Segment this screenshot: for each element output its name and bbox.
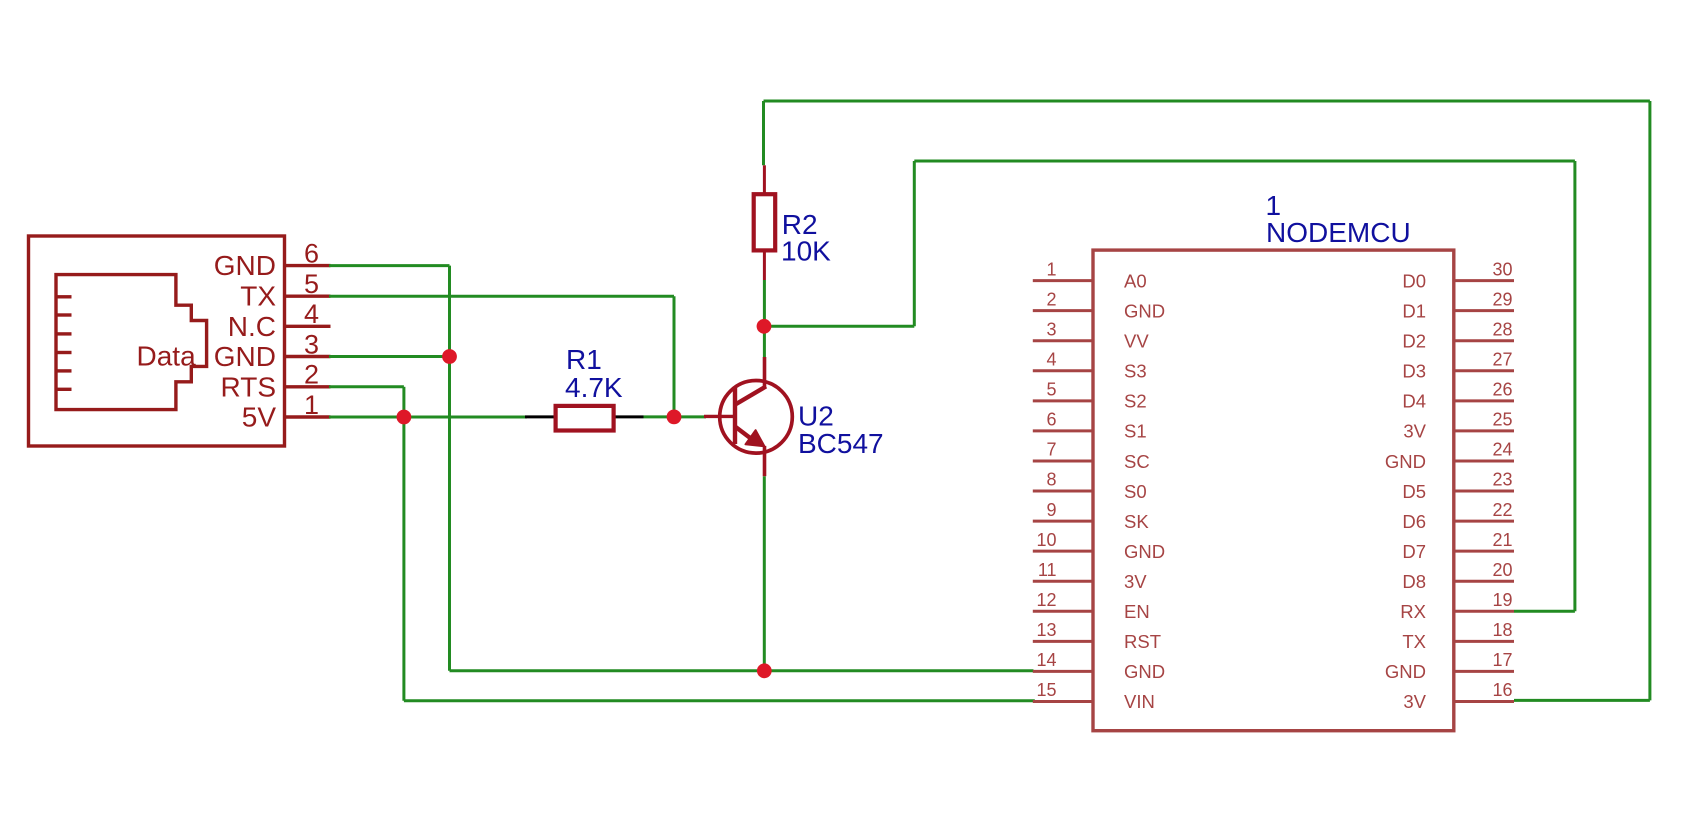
svg-text:S0: S0 xyxy=(1124,481,1147,502)
svg-text:S2: S2 xyxy=(1124,391,1147,412)
NODEMCU pin 30 lead xyxy=(1454,279,1514,282)
svg-text:4: 4 xyxy=(304,299,319,329)
pin label N.C (pin 4) xyxy=(228,311,276,342)
svg-text:D8: D8 xyxy=(1402,571,1426,592)
pin name S2 (pin 5) xyxy=(1124,391,1147,412)
svg-text:GND: GND xyxy=(1124,300,1165,321)
svg-text:D6: D6 xyxy=(1402,511,1426,532)
connector pin 2 lead xyxy=(285,385,331,388)
connector pin 3 lead xyxy=(285,355,331,358)
svg-text:VV: VV xyxy=(1124,331,1149,352)
svg-text:D1: D1 xyxy=(1402,300,1426,321)
svg-text:3V: 3V xyxy=(1403,691,1426,712)
pin number 12 xyxy=(1036,590,1056,610)
NODEMCU pin 11 lead xyxy=(1033,580,1093,583)
pin name D1 (pin 29) xyxy=(1402,300,1426,321)
pin number 14 xyxy=(1036,650,1056,670)
NODEMCU pin 25 lead xyxy=(1454,429,1514,432)
connector pin 4 lead xyxy=(285,325,331,328)
pin name D6 (pin 22) xyxy=(1402,511,1426,532)
svg-text:5: 5 xyxy=(1046,380,1056,400)
junction R1/TX/base xyxy=(667,410,682,425)
pin number 30 xyxy=(1492,259,1512,279)
pin number 24 xyxy=(1492,440,1512,460)
svg-text:GND: GND xyxy=(214,341,276,372)
svg-text:U2: U2 xyxy=(798,401,834,432)
svg-text:6: 6 xyxy=(1046,410,1056,430)
wire base node to Q1 base xyxy=(674,415,706,418)
svg-text:3V: 3V xyxy=(1124,571,1147,592)
pin label GND (pin 3) xyxy=(214,341,276,372)
pin name RST (pin 13) xyxy=(1124,631,1161,652)
transistor U2 emitter diagonal xyxy=(736,427,753,440)
svg-text:VIN: VIN xyxy=(1124,691,1155,712)
svg-text:24: 24 xyxy=(1492,440,1512,460)
pin number 20 xyxy=(1492,560,1512,580)
NODEMCU pin 2 lead xyxy=(1033,309,1093,312)
NODEMCU pin 5 lead xyxy=(1033,399,1093,402)
pin label TX (pin 5) xyxy=(240,281,276,312)
NODEMCU pin 8 lead xyxy=(1033,490,1093,493)
pin number 4 xyxy=(1046,349,1056,369)
svg-text:10: 10 xyxy=(1036,530,1056,550)
NODEMCU pin 7 lead xyxy=(1033,459,1093,462)
wire emitter to GND run xyxy=(763,476,766,671)
pin number 27 xyxy=(1492,349,1512,369)
svg-text:27: 27 xyxy=(1492,349,1512,369)
NODEMCU pin 6 lead xyxy=(1033,429,1093,432)
svg-text:20: 20 xyxy=(1492,560,1512,580)
resistor R2 top stub xyxy=(763,165,766,194)
pin name D4 (pin 26) xyxy=(1402,391,1426,412)
svg-text:2: 2 xyxy=(304,360,319,390)
NODEMCU pin 28 lead xyxy=(1454,339,1514,342)
svg-text:1: 1 xyxy=(304,390,319,420)
wire upper run to right xyxy=(914,160,1575,163)
IC U1 NODEMCU outline xyxy=(1093,250,1454,731)
NODEMCU pin 15 lead xyxy=(1033,700,1093,703)
NODEMCU pin 18 lead xyxy=(1454,640,1514,643)
junction RTS/5V/VIN xyxy=(397,410,412,425)
svg-text:NODEMCU: NODEMCU xyxy=(1266,217,1411,248)
svg-text:GND: GND xyxy=(214,250,276,281)
NODEMCU pin 29 lead xyxy=(1454,309,1514,312)
svg-text:1: 1 xyxy=(1046,259,1056,279)
transistor U2 emitter lead xyxy=(763,446,767,476)
pin name D5 (pin 23) xyxy=(1402,481,1426,502)
NODEMCU pin 24 lead xyxy=(1454,459,1514,462)
wire TX pin5 horizontal xyxy=(329,295,674,298)
pin name A0 (pin 1) xyxy=(1124,270,1147,291)
NODEMCU pin 26 lead xyxy=(1454,399,1514,402)
junction emitter/GND xyxy=(757,663,772,678)
svg-text:D5: D5 xyxy=(1402,481,1426,502)
pin number 10 xyxy=(1036,530,1056,550)
pin number 25 xyxy=(1492,410,1512,430)
resistor R2 bottom stub xyxy=(763,251,766,281)
NODEMCU pin 3 lead xyxy=(1033,339,1093,342)
pin name S3 (pin 4) xyxy=(1124,361,1147,382)
part name NODEMCU xyxy=(1266,217,1411,248)
pin number 2 xyxy=(1046,289,1056,309)
svg-text:TX: TX xyxy=(240,281,276,312)
pin name RX (pin 19) xyxy=(1400,601,1426,622)
NODEMCU pin 4 lead xyxy=(1033,369,1093,372)
wire R2 bottom to collector node xyxy=(763,280,766,326)
pin name GND (pin 24) xyxy=(1385,451,1426,472)
pin number 1 xyxy=(304,390,319,420)
svg-text:10K: 10K xyxy=(781,236,831,267)
pin number 5 xyxy=(304,269,319,299)
svg-text:5V: 5V xyxy=(242,402,277,433)
pin number 11 xyxy=(1038,560,1057,580)
svg-text:GND: GND xyxy=(1124,661,1165,682)
wire 5V node down xyxy=(402,417,405,701)
svg-text:N.C: N.C xyxy=(228,311,276,342)
pin number 4 xyxy=(304,299,319,329)
pin label RTS (pin 2) xyxy=(221,371,277,402)
svg-text:16: 16 xyxy=(1492,680,1512,700)
wire collector node right xyxy=(764,325,914,328)
NODEMCU pin 19 lead xyxy=(1454,610,1514,613)
transistor U2 collector diagonal xyxy=(736,386,767,404)
svg-text:19: 19 xyxy=(1492,590,1512,610)
pin name S0 (pin 8) xyxy=(1124,481,1147,502)
svg-text:13: 13 xyxy=(1036,620,1056,640)
wire collector node down xyxy=(763,326,766,357)
NODEMCU pin 23 lead xyxy=(1454,490,1514,493)
connector J1 'Data' outline xyxy=(29,236,285,446)
pin name D0 (pin 30) xyxy=(1402,270,1426,291)
wire into RX pin19 xyxy=(1514,610,1575,613)
svg-text:D4: D4 xyxy=(1402,391,1426,412)
wire GND to pin14 xyxy=(450,669,1034,672)
transistor U2 base bar xyxy=(733,388,737,444)
svg-text:4: 4 xyxy=(1046,349,1056,369)
svg-text:RTS: RTS xyxy=(221,371,277,402)
svg-text:4.7K: 4.7K xyxy=(565,372,623,403)
wire top run xyxy=(764,100,1650,103)
pin number 18 xyxy=(1492,620,1512,640)
svg-text:26: 26 xyxy=(1492,380,1512,400)
wire R2 top vertical xyxy=(762,101,765,165)
svg-text:21: 21 xyxy=(1492,530,1512,550)
pin label GND (pin 6) xyxy=(214,250,276,281)
pin number 23 xyxy=(1492,470,1512,490)
pin label 5V (pin 1) xyxy=(242,402,277,433)
pin number 28 xyxy=(1492,319,1512,339)
pin name D8 (pin 20) xyxy=(1402,571,1426,592)
label U2 xyxy=(798,401,834,432)
pin number 17 xyxy=(1492,650,1512,670)
svg-text:25: 25 xyxy=(1492,410,1512,430)
pin name GND (pin 10) xyxy=(1124,541,1165,562)
svg-text:S1: S1 xyxy=(1124,421,1147,442)
svg-text:3V: 3V xyxy=(1403,421,1426,442)
designator 1 xyxy=(1266,190,1282,221)
svg-text:D3: D3 xyxy=(1402,361,1426,382)
junction GND pin3 xyxy=(442,349,457,364)
svg-text:D2: D2 xyxy=(1402,331,1426,352)
svg-text:5: 5 xyxy=(304,269,319,299)
svg-text:30: 30 xyxy=(1492,259,1512,279)
svg-text:28: 28 xyxy=(1492,319,1512,339)
resistor R1 left stub xyxy=(525,415,555,418)
svg-text:S3: S3 xyxy=(1124,361,1147,382)
resistor R1 right stub xyxy=(614,415,644,418)
pin number 26 xyxy=(1492,380,1512,400)
value 10K xyxy=(781,236,831,267)
wire RTS down to 5V node xyxy=(402,387,405,417)
pin number 21 xyxy=(1492,530,1512,550)
pin number 6 xyxy=(1046,410,1056,430)
svg-text:8: 8 xyxy=(1046,470,1056,490)
pin name D2 (pin 28) xyxy=(1402,331,1426,352)
svg-text:TX: TX xyxy=(1402,631,1426,652)
connector J1 contact teeth xyxy=(56,297,72,390)
wire to VIN pin15 xyxy=(404,699,1035,702)
wire 5V pin1 to R1 xyxy=(329,416,527,419)
svg-text:15: 15 xyxy=(1036,680,1056,700)
pin number 15 xyxy=(1036,680,1056,700)
wire up to upper run xyxy=(913,161,916,326)
NODEMCU pin 1 lead xyxy=(1033,279,1093,282)
pin name GND (pin 17) xyxy=(1385,661,1426,682)
svg-text:GND: GND xyxy=(1124,541,1165,562)
pin number 1 xyxy=(1046,259,1056,279)
pin number 8 xyxy=(1046,470,1056,490)
svg-text:SC: SC xyxy=(1124,451,1150,472)
pin name SK (pin 9) xyxy=(1124,511,1149,532)
wire down far right xyxy=(1648,101,1651,700)
svg-text:7: 7 xyxy=(1046,440,1056,460)
pin number 3 xyxy=(304,329,319,359)
svg-text:Data: Data xyxy=(137,340,197,371)
pin number 2 xyxy=(304,360,319,390)
wire into 3V pin16 xyxy=(1514,699,1650,702)
NODEMCU pin 21 lead xyxy=(1454,550,1514,553)
pin number 6 xyxy=(304,238,319,268)
pin name GND (pin 14) xyxy=(1124,661,1165,682)
svg-text:R1: R1 xyxy=(566,344,602,375)
transistor U2 circle xyxy=(720,381,793,454)
pin name TX (pin 18) xyxy=(1402,631,1426,652)
NODEMCU pin 27 lead xyxy=(1454,369,1514,372)
pin name GND (pin 2) xyxy=(1124,300,1165,321)
svg-text:D0: D0 xyxy=(1402,270,1426,291)
wire RTS pin2 horizontal xyxy=(329,385,404,388)
svg-text:22: 22 xyxy=(1492,500,1512,520)
label R2 xyxy=(782,209,818,240)
svg-text:29: 29 xyxy=(1492,289,1512,309)
pin number 29 xyxy=(1492,289,1512,309)
wire GND vertical xyxy=(448,266,451,671)
svg-text:3: 3 xyxy=(1046,319,1056,339)
pin name VV (pin 3) xyxy=(1124,331,1149,352)
NODEMCU pin 22 lead xyxy=(1454,520,1514,523)
pin number 3 xyxy=(1046,319,1056,339)
NODEMCU pin 17 lead xyxy=(1454,670,1514,673)
svg-text:SK: SK xyxy=(1124,511,1149,532)
resistor R2 body xyxy=(754,194,776,250)
pin number 5 xyxy=(1046,380,1056,400)
pin number 19 xyxy=(1492,590,1512,610)
svg-text:12: 12 xyxy=(1036,590,1056,610)
transistor U2 collector lead xyxy=(763,357,767,388)
NODEMCU pin 20 lead xyxy=(1454,580,1514,583)
label Data xyxy=(137,340,197,371)
NODEMCU pin 14 lead xyxy=(1033,670,1093,673)
pin name D3 (pin 27) xyxy=(1402,361,1426,382)
svg-text:RST: RST xyxy=(1124,631,1161,652)
label R1 xyxy=(566,344,602,375)
svg-text:11: 11 xyxy=(1038,560,1057,580)
svg-text:BC547: BC547 xyxy=(798,428,884,459)
connector pin 1 lead xyxy=(285,415,331,418)
pin name S1 (pin 6) xyxy=(1124,421,1147,442)
svg-text:D7: D7 xyxy=(1402,541,1426,562)
pin number 22 xyxy=(1492,500,1512,520)
svg-text:GND: GND xyxy=(1385,451,1426,472)
wire GND pin6 horizontal xyxy=(329,264,450,267)
transistor U2 emitter arrow xyxy=(746,430,765,446)
pin number 16 xyxy=(1492,680,1512,700)
svg-text:6: 6 xyxy=(304,238,319,268)
svg-text:14: 14 xyxy=(1036,650,1056,670)
svg-text:2: 2 xyxy=(1046,289,1056,309)
pin name 3V (pin 11) xyxy=(1124,571,1147,592)
svg-text:3: 3 xyxy=(304,329,319,359)
NODEMCU pin 10 lead xyxy=(1033,550,1093,553)
svg-text:GND: GND xyxy=(1385,661,1426,682)
pin name 3V (pin 16) xyxy=(1403,691,1426,712)
connector pin 5 lead xyxy=(285,295,331,298)
pin name VIN (pin 15) xyxy=(1124,691,1155,712)
value 4.7K xyxy=(565,372,623,403)
NODEMCU pin 16 lead xyxy=(1454,700,1514,703)
NODEMCU pin 12 lead xyxy=(1033,610,1093,613)
resistor R1 body xyxy=(556,406,614,431)
transistor U2 base lead xyxy=(704,415,733,418)
svg-text:23: 23 xyxy=(1492,470,1512,490)
pin number 7 xyxy=(1046,440,1056,460)
pin number 13 xyxy=(1036,620,1056,640)
wire R1 to base node xyxy=(644,415,675,418)
NODEMCU pin 13 lead xyxy=(1033,640,1093,643)
junction R2/collector xyxy=(757,319,772,334)
value BC547 xyxy=(798,428,884,459)
pin number 9 xyxy=(1046,500,1056,520)
wire GND pin3 horizontal xyxy=(329,355,450,358)
svg-text:A0: A0 xyxy=(1124,270,1147,291)
wire down right side to RX xyxy=(1573,161,1576,611)
svg-text:9: 9 xyxy=(1046,500,1056,520)
pin name 3V (pin 25) xyxy=(1403,421,1426,442)
svg-text:17: 17 xyxy=(1492,650,1512,670)
svg-text:EN: EN xyxy=(1124,601,1150,622)
wire TX down to base node xyxy=(673,296,676,417)
pin name D7 (pin 21) xyxy=(1402,541,1426,562)
connector J1 jack body xyxy=(56,275,207,410)
svg-text:18: 18 xyxy=(1492,620,1512,640)
connector pin 6 lead xyxy=(285,264,331,267)
pin name SC (pin 7) xyxy=(1124,451,1150,472)
svg-text:RX: RX xyxy=(1400,601,1426,622)
NODEMCU pin 9 lead xyxy=(1033,520,1093,523)
pin name EN (pin 12) xyxy=(1124,601,1150,622)
